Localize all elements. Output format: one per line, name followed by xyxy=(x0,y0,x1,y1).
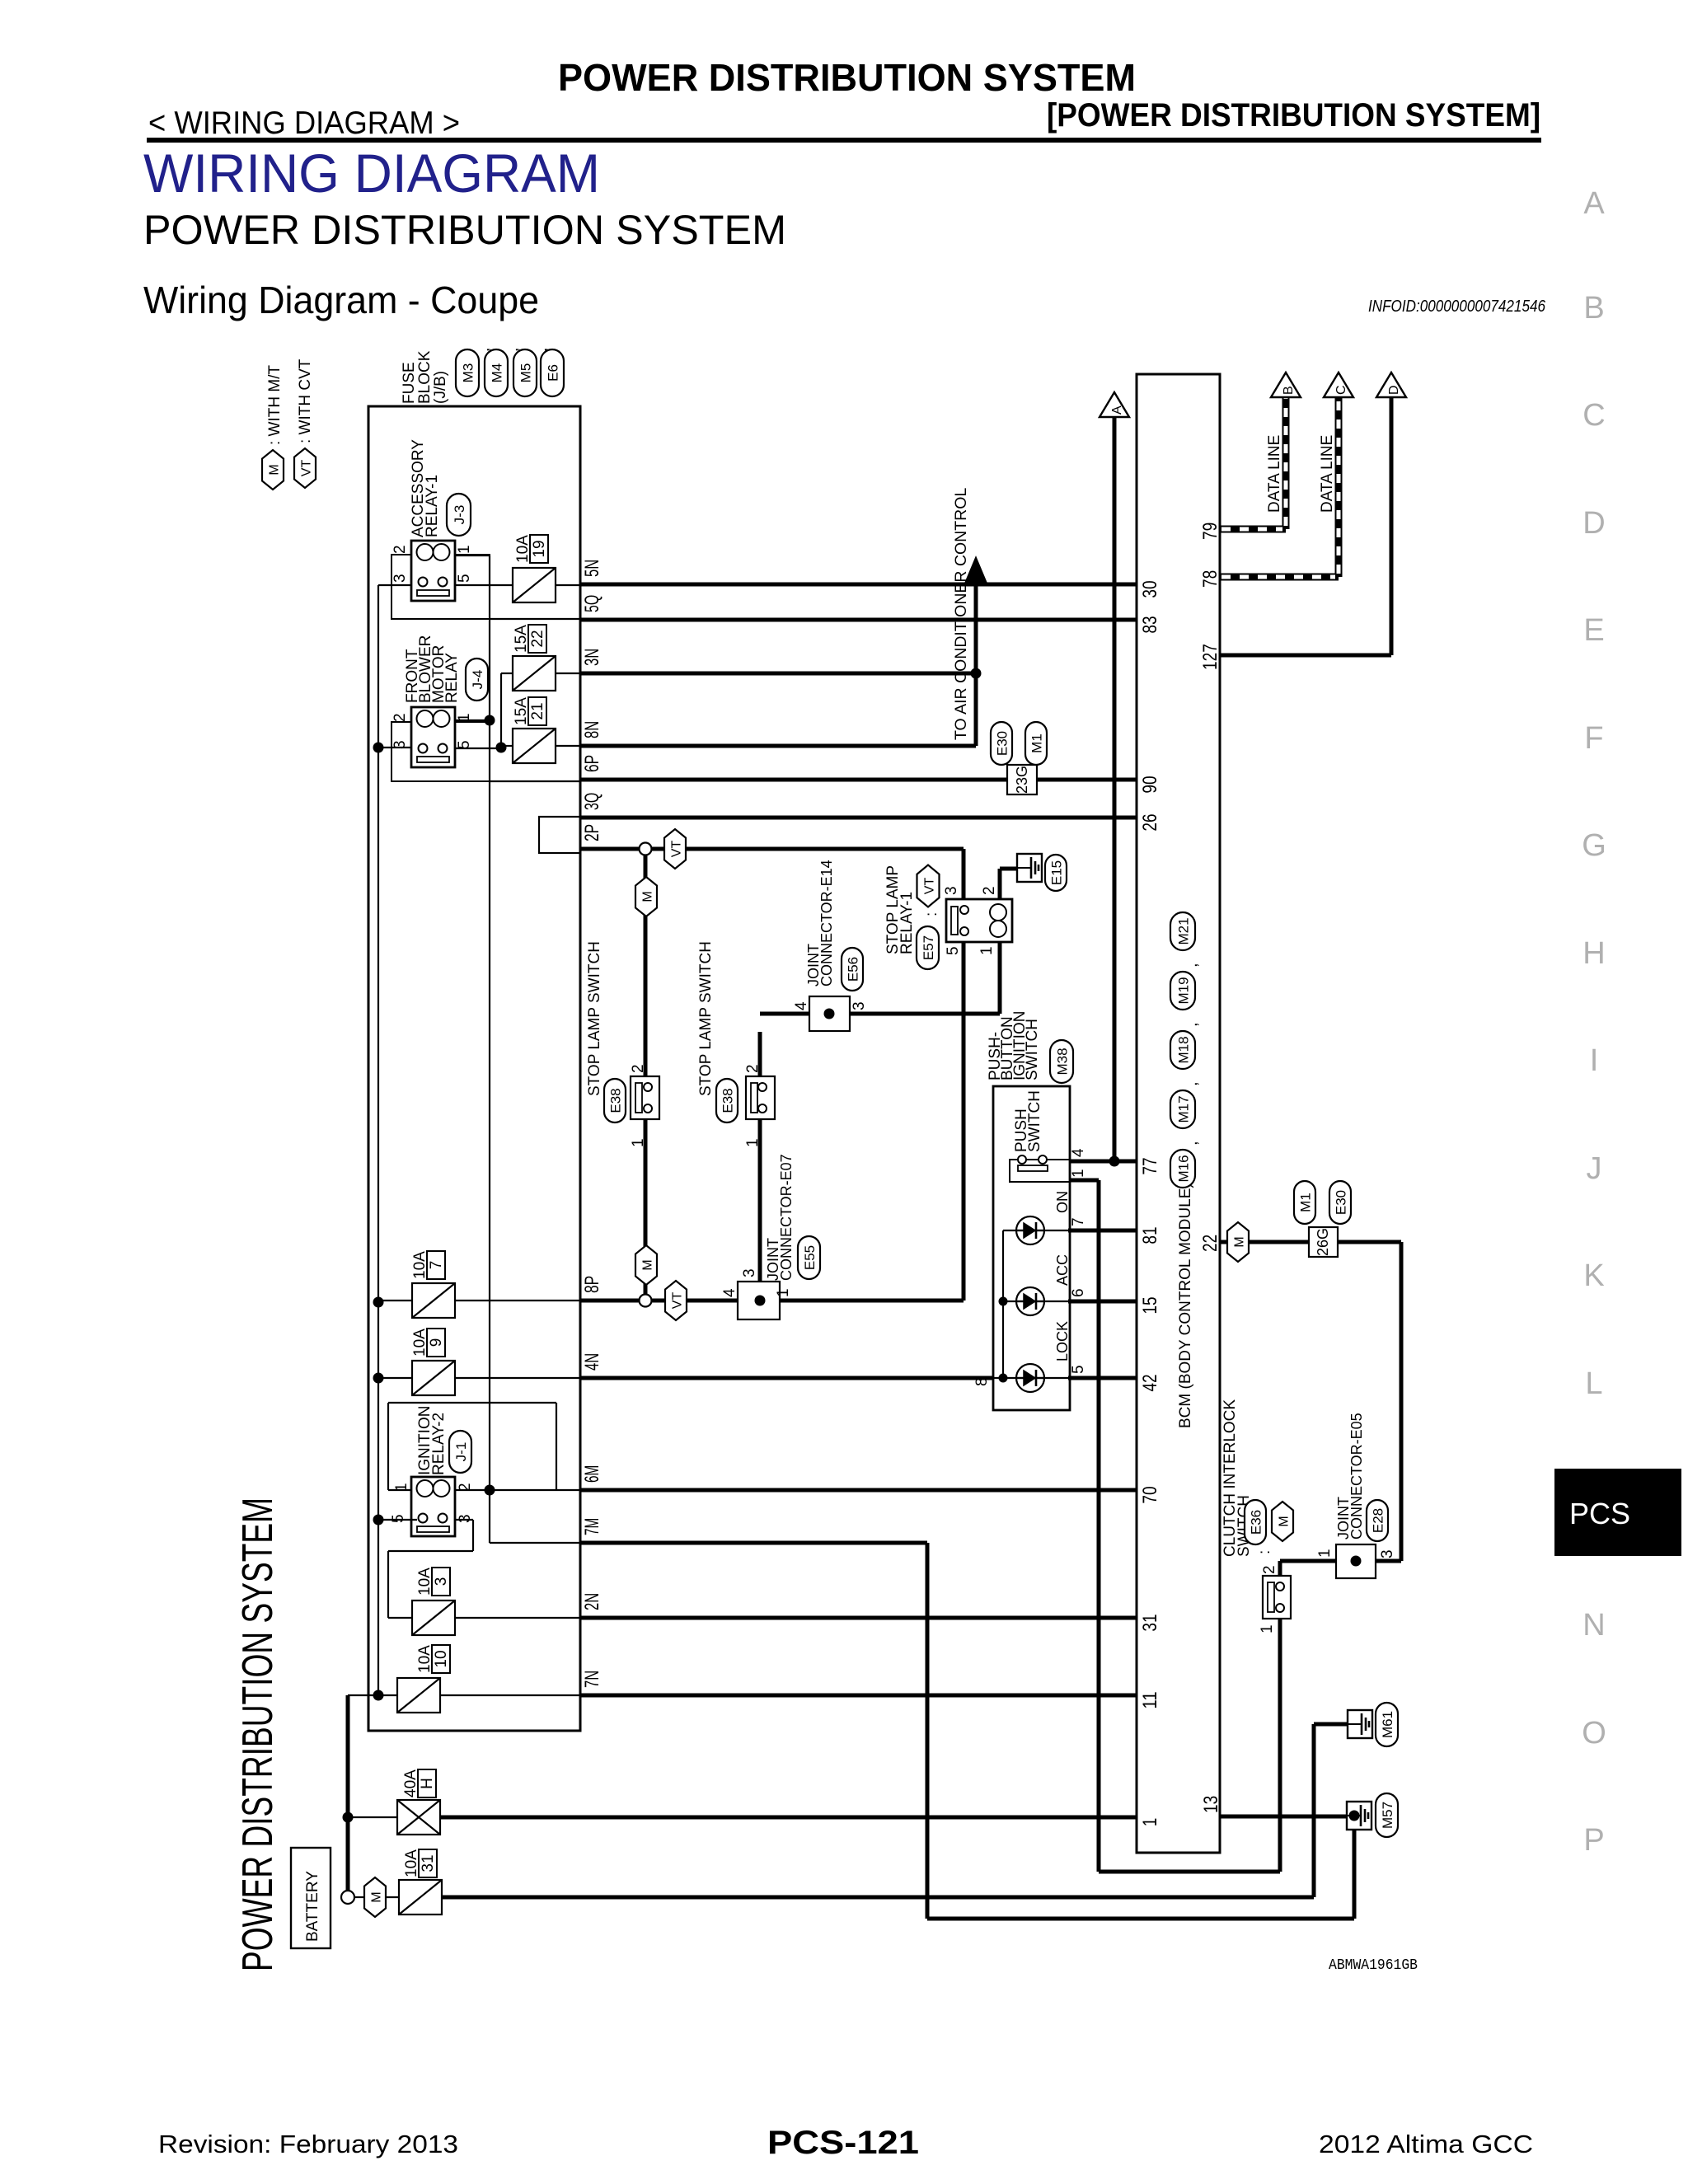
svg-text:VT: VT xyxy=(670,841,684,858)
svg-text:A: A xyxy=(1110,405,1124,415)
svg-text:PCS-121: PCS-121 xyxy=(767,2125,919,2161)
svg-text:42: 42 xyxy=(1139,1374,1161,1391)
svg-text:D: D xyxy=(1582,506,1605,541)
svg-text:3N: 3N xyxy=(581,649,603,666)
svg-text:J-4: J-4 xyxy=(470,670,485,690)
svg-text:2012 Altima GCC: 2012 Altima GCC xyxy=(1319,2130,1533,2158)
svg-text:M: M xyxy=(370,1891,384,1902)
svg-text:SWITCH: SWITCH xyxy=(1026,1090,1043,1152)
svg-text:E: E xyxy=(1583,613,1604,648)
svg-text:5Q: 5Q xyxy=(581,595,603,612)
svg-text:22: 22 xyxy=(529,630,546,647)
svg-text:< WIRING DIAGRAM >: < WIRING DIAGRAM > xyxy=(148,105,460,141)
svg-text:127: 127 xyxy=(1199,644,1221,670)
svg-text:,: , xyxy=(1183,1022,1201,1027)
svg-text:M16: M16 xyxy=(1176,1155,1192,1182)
svg-text:ACC: ACC xyxy=(1054,1254,1071,1286)
svg-text:POWER DISTRIBUTION SYSTEM: POWER DISTRIBUTION SYSTEM xyxy=(143,207,786,253)
svg-text:ON: ON xyxy=(1054,1191,1071,1213)
svg-text:3: 3 xyxy=(851,1001,868,1010)
svg-text:M1: M1 xyxy=(1029,733,1045,753)
svg-text:1: 1 xyxy=(775,1288,792,1297)
svg-text::: : xyxy=(1256,1550,1273,1554)
svg-text:VT: VT xyxy=(671,1292,685,1310)
svg-text:1: 1 xyxy=(744,1138,762,1147)
svg-text:2: 2 xyxy=(392,713,409,722)
svg-text:Revision: February 2013: Revision: February 2013 xyxy=(158,2130,458,2158)
svg-text:CONNECTOR-E14: CONNECTOR-E14 xyxy=(818,860,835,987)
svg-text:BATTERY: BATTERY xyxy=(304,1871,321,1942)
svg-text:E6: E6 xyxy=(546,364,561,382)
svg-text:15A: 15A xyxy=(513,697,530,725)
svg-text:M: M xyxy=(1233,1236,1247,1247)
svg-text:10A: 10A xyxy=(514,535,532,563)
svg-text:K: K xyxy=(1583,1258,1604,1293)
svg-text:7N: 7N xyxy=(581,1671,603,1688)
svg-text:26G: 26G xyxy=(1315,1228,1331,1256)
svg-text:E38: E38 xyxy=(720,1088,736,1113)
svg-text:E56: E56 xyxy=(846,957,861,982)
svg-text:STOP LAMP SWITCH: STOP LAMP SWITCH xyxy=(586,941,603,1096)
svg-text:J-1: J-1 xyxy=(453,1442,469,1462)
svg-text:83: 83 xyxy=(1139,616,1161,633)
svg-text:2: 2 xyxy=(630,1064,647,1073)
svg-text:H: H xyxy=(1582,936,1605,971)
svg-text:21: 21 xyxy=(529,702,546,719)
svg-text:SWITCH: SWITCH xyxy=(1024,1019,1041,1080)
svg-text:M61: M61 xyxy=(1380,1711,1395,1738)
svg-text:M19: M19 xyxy=(1176,977,1192,1004)
svg-text:3: 3 xyxy=(433,1577,450,1586)
svg-text:3Q: 3Q xyxy=(581,793,603,810)
svg-text:3: 3 xyxy=(943,886,960,895)
svg-text:RELAY-2: RELAY-2 xyxy=(430,1413,448,1475)
svg-text:E28: E28 xyxy=(1371,1508,1386,1533)
svg-text:15: 15 xyxy=(1139,1296,1161,1314)
svg-text:BCM (BODY CONTROL MODULE): BCM (BODY CONTROL MODULE) xyxy=(1177,1183,1194,1428)
svg-text:C: C xyxy=(1582,398,1605,433)
svg-text:N: N xyxy=(1582,1608,1605,1643)
svg-text:M: M xyxy=(641,1259,655,1270)
svg-text:10A: 10A xyxy=(411,1251,429,1279)
svg-text:E15: E15 xyxy=(1049,860,1065,885)
svg-text:5N: 5N xyxy=(581,560,603,577)
svg-text:M5: M5 xyxy=(518,363,534,383)
svg-text:PCS: PCS xyxy=(1569,1497,1630,1530)
svg-text:3: 3 xyxy=(1379,1549,1396,1558)
svg-text:M1: M1 xyxy=(1298,1193,1314,1212)
svg-text:1: 1 xyxy=(1259,1624,1276,1633)
svg-text:3: 3 xyxy=(457,1514,474,1523)
svg-text:M: M xyxy=(641,891,655,902)
svg-text:BLOCK: BLOCK xyxy=(416,350,434,404)
svg-text:I: I xyxy=(1590,1043,1599,1078)
svg-text:L: L xyxy=(1585,1366,1602,1401)
svg-text:: WITH M/T: : WITH M/T xyxy=(266,365,284,445)
svg-text:11: 11 xyxy=(1139,1691,1161,1708)
svg-text:1: 1 xyxy=(456,545,473,554)
svg-text:CONNECTOR-E07: CONNECTOR-E07 xyxy=(778,1154,795,1281)
svg-text:6P: 6P xyxy=(581,755,603,772)
svg-text:C: C xyxy=(1334,385,1348,395)
svg-text:DATA LINE: DATA LINE xyxy=(1319,435,1336,513)
svg-text:40A: 40A xyxy=(402,1769,420,1797)
svg-text:8N: 8N xyxy=(581,721,603,738)
svg-text:10A: 10A xyxy=(411,1329,429,1357)
svg-text:INFOID:0000000007421546: INFOID:0000000007421546 xyxy=(1368,298,1546,316)
svg-text:6: 6 xyxy=(1070,1288,1087,1297)
svg-text:G: G xyxy=(1582,828,1606,863)
svg-text:WIRING DIAGRAM: WIRING DIAGRAM xyxy=(143,143,600,204)
svg-text:M21: M21 xyxy=(1176,917,1192,944)
svg-text:19: 19 xyxy=(531,540,548,557)
svg-text:POWER DISTRIBUTION SYSTEM: POWER DISTRIBUTION SYSTEM xyxy=(234,1497,282,1971)
svg-text:26: 26 xyxy=(1139,813,1161,831)
svg-text:LOCK: LOCK xyxy=(1054,1321,1071,1361)
svg-text:M: M xyxy=(1278,1516,1292,1526)
svg-text:31: 31 xyxy=(1139,1614,1161,1631)
svg-text:6M: 6M xyxy=(581,1465,603,1483)
svg-text:77: 77 xyxy=(1139,1157,1161,1174)
svg-text:E38: E38 xyxy=(608,1088,624,1113)
svg-text:5: 5 xyxy=(390,1514,407,1523)
svg-text:15A: 15A xyxy=(513,625,530,653)
svg-text:VT: VT xyxy=(300,460,314,477)
svg-text:79: 79 xyxy=(1199,523,1221,540)
svg-text:3: 3 xyxy=(741,1268,758,1277)
svg-text:13: 13 xyxy=(1200,1796,1222,1813)
svg-text:8: 8 xyxy=(973,1377,991,1386)
svg-text:2: 2 xyxy=(1261,1565,1278,1574)
svg-text:RELAY-1: RELAY-1 xyxy=(424,475,441,537)
svg-text:3: 3 xyxy=(392,574,409,583)
svg-text:M17: M17 xyxy=(1176,1095,1192,1122)
svg-text:RELAY-1: RELAY-1 xyxy=(898,892,916,954)
svg-text:B: B xyxy=(1282,386,1296,395)
svg-text:Wiring Diagram - Coupe: Wiring Diagram - Coupe xyxy=(143,279,539,321)
svg-text:4: 4 xyxy=(721,1288,738,1297)
svg-text:H: H xyxy=(419,1778,436,1789)
svg-text:J-3: J-3 xyxy=(452,505,467,525)
svg-text:70: 70 xyxy=(1139,1486,1161,1503)
svg-text:2: 2 xyxy=(392,545,409,554)
svg-text:DATA LINE: DATA LINE xyxy=(1266,435,1283,513)
svg-text:P: P xyxy=(1583,1823,1604,1858)
svg-text:E57: E57 xyxy=(921,935,936,960)
svg-text:M18: M18 xyxy=(1176,1036,1192,1063)
svg-text:J: J xyxy=(1587,1151,1602,1186)
svg-text:90: 90 xyxy=(1139,776,1161,793)
svg-text:O: O xyxy=(1582,1716,1606,1750)
svg-text:,: , xyxy=(1183,963,1201,968)
svg-text:22: 22 xyxy=(1199,1235,1221,1252)
svg-text:M38: M38 xyxy=(1055,1047,1071,1075)
svg-text:1: 1 xyxy=(1139,1818,1161,1827)
svg-text:2N: 2N xyxy=(581,1593,603,1610)
svg-text:1: 1 xyxy=(1070,1169,1087,1178)
svg-text:31: 31 xyxy=(420,1854,437,1872)
svg-text:5: 5 xyxy=(945,946,962,955)
svg-text:M: M xyxy=(268,464,282,475)
svg-text:,: , xyxy=(1183,1081,1201,1086)
svg-text:78: 78 xyxy=(1199,570,1221,588)
svg-text::: : xyxy=(923,912,940,916)
svg-text:81: 81 xyxy=(1139,1226,1161,1244)
svg-text:7: 7 xyxy=(1070,1217,1087,1226)
svg-text:STOP LAMP SWITCH: STOP LAMP SWITCH xyxy=(697,941,715,1096)
svg-text:RELAY: RELAY xyxy=(443,653,461,703)
svg-text:10A: 10A xyxy=(416,1645,434,1673)
svg-text:E55: E55 xyxy=(802,1245,818,1270)
svg-text:30: 30 xyxy=(1139,580,1161,598)
svg-text:4: 4 xyxy=(793,1001,810,1010)
svg-text:7M: 7M xyxy=(581,1518,603,1535)
svg-text:ABMWA1961GB: ABMWA1961GB xyxy=(1329,1957,1418,1974)
svg-text:A: A xyxy=(1583,186,1605,221)
svg-text:E30: E30 xyxy=(1334,1190,1349,1215)
svg-text:23G: 23G xyxy=(1014,766,1030,794)
svg-text:2: 2 xyxy=(744,1064,762,1073)
svg-text:(J/B): (J/B) xyxy=(432,371,449,404)
svg-text:E36: E36 xyxy=(1249,1510,1264,1535)
svg-text:1: 1 xyxy=(630,1138,647,1147)
svg-text:5: 5 xyxy=(456,574,473,583)
svg-text:4N: 4N xyxy=(581,1353,603,1371)
svg-text:2: 2 xyxy=(981,886,998,895)
svg-text:4: 4 xyxy=(1070,1148,1087,1157)
svg-text:E30: E30 xyxy=(995,731,1010,756)
svg-text:B: B xyxy=(1583,291,1604,326)
svg-text:,: , xyxy=(1183,1141,1201,1146)
svg-text:M57: M57 xyxy=(1380,1802,1395,1829)
svg-text:M4: M4 xyxy=(490,363,505,383)
svg-text:[POWER DISTRIBUTION SYSTEM]: [POWER DISTRIBUTION SYSTEM] xyxy=(1047,97,1540,134)
svg-text:1: 1 xyxy=(1316,1549,1334,1558)
svg-text:10: 10 xyxy=(433,1650,450,1667)
svg-text:CONNECTOR-E05: CONNECTOR-E05 xyxy=(1348,1413,1365,1540)
svg-text:TO AIR CONDITIONER CONTROL: TO AIR CONDITIONER CONTROL xyxy=(952,488,970,740)
svg-text:10A: 10A xyxy=(403,1849,420,1877)
svg-text:VT: VT xyxy=(923,878,937,895)
svg-text:FUSE: FUSE xyxy=(401,362,418,404)
svg-text:: WITH CVT: : WITH CVT xyxy=(297,359,314,443)
svg-text:POWER DISTRIBUTION SYSTEM: POWER DISTRIBUTION SYSTEM xyxy=(558,56,1136,99)
svg-text:1: 1 xyxy=(978,946,996,955)
svg-text:9: 9 xyxy=(428,1338,445,1347)
svg-text:2P: 2P xyxy=(581,824,603,841)
svg-text:10A: 10A xyxy=(416,1568,434,1596)
svg-text:5: 5 xyxy=(1070,1365,1087,1374)
svg-text:8P: 8P xyxy=(581,1276,603,1293)
svg-text:M3: M3 xyxy=(461,363,476,383)
svg-text:D: D xyxy=(1387,385,1401,395)
svg-text:7: 7 xyxy=(428,1261,445,1270)
svg-text:F: F xyxy=(1584,721,1603,756)
